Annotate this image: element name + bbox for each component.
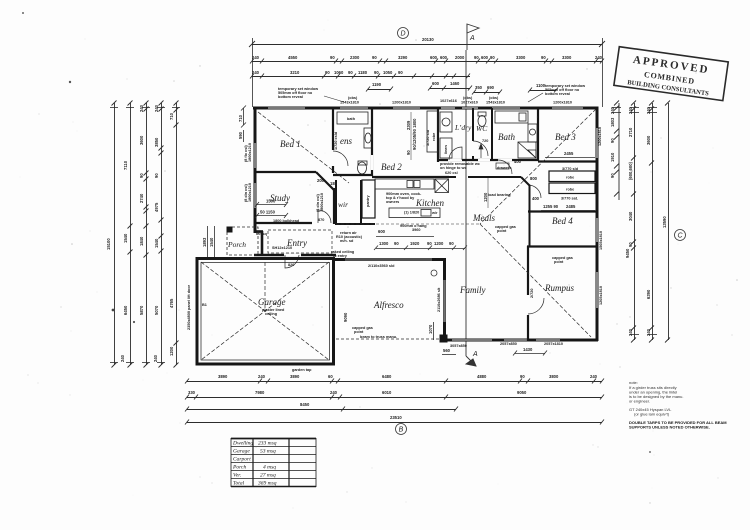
svg-text:A: A <box>472 351 478 358</box>
return air note <box>331 231 363 258</box>
svg-text:3/770 sld: 3/770 sld <box>562 167 579 171</box>
svg-text:1050: 1050 <box>383 70 393 75</box>
front door opening <box>284 254 301 257</box>
provide removable note <box>440 162 480 175</box>
svg-text:90: 90 <box>348 70 353 75</box>
windows in east wall <box>596 128 598 308</box>
svg-text:240: 240 <box>252 55 260 60</box>
svg-text:90: 90 <box>520 374 525 379</box>
wall: family west exterior <box>443 258 446 342</box>
openings in south wall <box>452 339 560 341</box>
svg-text:Porch: Porch <box>227 240 246 249</box>
right dim tier3 <box>649 101 654 343</box>
svg-text:590: 590 <box>238 131 243 139</box>
dim 1200 vertical meals <box>487 178 489 208</box>
svg-text:240: 240 <box>646 106 651 114</box>
svg-text:1540: 1540 <box>209 237 214 247</box>
svg-text:710: 710 <box>169 112 174 120</box>
svg-text:Bed 2: Bed 2 <box>381 162 402 172</box>
svg-text:Bath: Bath <box>498 132 515 142</box>
svg-text:820: 820 <box>288 263 294 267</box>
svg-text:3300: 3300 <box>562 55 572 60</box>
right dim tier1 <box>614 101 619 201</box>
svg-text:90: 90 <box>610 173 615 178</box>
svg-text:Porch: Porch <box>232 465 246 471</box>
svg-text:linen: linen <box>444 144 448 154</box>
sub dims 600 1460 <box>428 86 472 91</box>
svg-text:90: 90 <box>449 241 454 246</box>
left dim vertical tier4 <box>159 101 164 368</box>
svg-text:load bearing: load bearing <box>488 193 511 197</box>
svg-text:200: 200 <box>317 178 325 183</box>
svg-text:wir: wir <box>338 200 348 209</box>
bed2 internal dim <box>410 112 412 160</box>
alfresco post corner <box>440 335 447 342</box>
svg-text:2309: 2309 <box>406 120 411 130</box>
svg-text:2057x1810: 2057x1810 <box>544 342 563 346</box>
svg-text:240: 240 <box>153 354 158 362</box>
svg-text:Garage: Garage <box>233 449 250 455</box>
alfresco dim 1070 <box>433 322 435 340</box>
windows in north wall (thin double line) <box>268 107 583 109</box>
svg-text:3960: 3960 <box>412 228 420 232</box>
svg-text:1505x1810: 1505x1810 <box>599 231 603 250</box>
svg-text:1540: 1540 <box>154 238 159 248</box>
dimension line top tier3 <box>250 74 470 79</box>
wall: study east <box>333 188 335 224</box>
bath tub <box>495 111 528 123</box>
svg-text:1200x1810: 1200x1810 <box>598 127 602 146</box>
svg-text:400: 400 <box>514 159 522 164</box>
entry dashed outline <box>268 230 332 253</box>
labels top tier2 <box>252 55 603 60</box>
front door arc <box>285 255 299 268</box>
svg-text:Bed 4: Bed 4 <box>552 216 573 226</box>
porch dashed outline <box>227 227 258 255</box>
robe label bed2 <box>426 129 436 146</box>
svg-text:(obs): (obs) <box>348 96 358 100</box>
svg-text:3890: 3890 <box>218 374 228 379</box>
alfresco beam dashed <box>336 338 444 340</box>
grid bubble D <box>398 28 409 39</box>
wall: ldry/wc divider <box>472 108 474 160</box>
svg-text:bath: bath <box>347 117 356 121</box>
svg-text:point: point <box>354 330 364 334</box>
right dim tier4 13590 <box>665 101 670 343</box>
sub dim 1100 <box>528 88 558 93</box>
svg-text:SUPPORTS UNLESS NOTED OTHERWIS: SUPPORTS UNLESS NOTED OTHERWISE. <box>629 425 710 430</box>
wall: bath east / bed3 west <box>537 108 539 161</box>
svg-text:3/720 sld: 3/720 sld <box>426 129 430 146</box>
svg-text:1255 90: 1255 90 <box>543 204 559 209</box>
svg-text:240: 240 <box>595 55 603 60</box>
svg-text:240: 240 <box>154 104 159 112</box>
svg-text:4765: 4765 <box>169 298 174 308</box>
svg-text:(obs): (obs) <box>463 96 473 100</box>
stamp box <box>614 47 728 101</box>
svg-text:1800x1210: 1800x1210 <box>320 193 324 212</box>
capped gas rumpus <box>552 256 573 264</box>
svg-text:Carport: Carport <box>233 457 251 463</box>
svg-text:3600: 3600 <box>646 135 651 145</box>
capped gas meals <box>495 225 516 233</box>
kitchen stove <box>435 179 449 193</box>
svg-text:Meals: Meals <box>472 213 495 223</box>
svg-text:Dwelling: Dwelling <box>232 441 253 447</box>
svg-text:4975: 4975 <box>154 202 159 212</box>
stub dim 590 left wall <box>243 130 245 142</box>
south wall door labels <box>450 342 563 348</box>
svg-text:Ver.: Ver. <box>233 473 241 479</box>
svg-text:1920: 1920 <box>410 241 420 246</box>
stub dim 710 at top-left corner <box>241 106 246 128</box>
svg-text:drawers: drawers <box>497 166 512 170</box>
svg-text:600: 600 <box>430 55 438 60</box>
bottom dim row1 <box>185 379 604 384</box>
svg-text:4 msq: 4 msq <box>263 464 276 471</box>
svg-text:6450: 6450 <box>123 305 128 315</box>
svg-text:6480: 6480 <box>382 374 392 379</box>
svg-text:560: 560 <box>443 348 451 353</box>
svg-text:WC: WC <box>476 124 488 133</box>
svg-text:720: 720 <box>482 139 488 143</box>
svg-text:1840: 1840 <box>139 236 144 246</box>
opening family west sliding <box>444 280 446 322</box>
robe labels <box>561 167 579 201</box>
svg-text:1205x1810: 1205x1810 <box>599 286 603 305</box>
svg-text:7110: 7110 <box>123 160 128 170</box>
svg-text:ens: ens <box>340 136 352 146</box>
svg-text:Family: Family <box>459 285 486 295</box>
svg-text:3057x850: 3057x850 <box>450 344 467 348</box>
wall: south exterior family/rumpus <box>443 339 598 342</box>
ens wc <box>358 161 368 174</box>
svg-text:90: 90 <box>374 70 379 75</box>
svg-text:1893: 1893 <box>202 237 207 247</box>
svg-text:Kitchen: Kitchen <box>415 198 444 208</box>
rumpus door arc <box>528 298 544 314</box>
svg-text:2740: 2740 <box>139 193 144 203</box>
entry small notes <box>256 232 294 267</box>
wall: alfresco north (sliding doors) <box>334 258 446 261</box>
svg-text:90: 90 <box>490 55 495 60</box>
wall: wir walls <box>336 180 375 225</box>
hall south wall continuation <box>449 177 530 186</box>
svg-text:600sq: 600sq <box>256 232 267 236</box>
svg-text:Garage: Garage <box>258 297 286 307</box>
bed1 dims small <box>317 178 338 186</box>
svg-text:robe: robe <box>432 133 436 141</box>
svg-text:6390: 6390 <box>646 289 651 299</box>
svg-text:robe: robe <box>566 176 574 180</box>
wall: west exterior (bed1/study) <box>254 107 257 234</box>
bed2 robe <box>427 111 438 152</box>
svg-text:D: D <box>400 31 405 38</box>
svg-text:1060: 1060 <box>334 70 344 75</box>
kitchen bench north <box>375 179 434 189</box>
kitchen dim row 1300.. <box>374 246 467 251</box>
svg-text:90: 90 <box>394 241 399 246</box>
svg-text:1300: 1300 <box>379 241 389 246</box>
section marker A top <box>467 24 479 50</box>
svg-text:240: 240 <box>628 106 633 114</box>
svg-text:L’dry: L’dry <box>454 123 472 132</box>
bottom dim row4 23510 <box>185 420 604 425</box>
kitchen island <box>389 208 440 218</box>
svg-text:233 msq: 233 msq <box>258 441 277 447</box>
svg-text:1027x616: 1027x616 <box>440 99 457 103</box>
svg-text:240: 240 <box>120 354 125 362</box>
svg-text:1190: 1190 <box>372 82 382 87</box>
ldry linen <box>440 138 452 158</box>
bath shower <box>518 142 536 158</box>
svg-text:beam to truss manu.: beam to truss manu. <box>360 335 397 339</box>
wall: bed1 south / study north <box>255 172 334 190</box>
labels top tier3 <box>252 70 403 75</box>
svg-text:90/1205/90 1800: 90/1205/90 1800 <box>412 118 417 150</box>
svg-text:Alfresco: Alfresco <box>373 300 404 310</box>
drawers cabinet <box>496 163 509 169</box>
wall: bed3 south <box>538 160 598 162</box>
svg-text:800: 800 <box>530 176 538 181</box>
svg-text:Rumpus: Rumpus <box>544 283 574 293</box>
dimension line top tier2 <box>250 59 604 64</box>
svg-text:point: point <box>554 260 564 264</box>
svg-text:pantry: pantry <box>366 195 370 207</box>
bath vanity <box>528 124 537 142</box>
svg-text:2350x4800 panel lift door: 2350x4800 panel lift door <box>187 284 191 330</box>
svg-text:1543x1810: 1543x1810 <box>486 101 505 105</box>
svg-text:600: 600 <box>481 55 489 60</box>
left dim vertical tier2 <box>128 101 133 368</box>
svg-text:90: 90 <box>474 55 479 60</box>
svg-text:90: 90 <box>628 242 633 247</box>
svg-text:4550: 4550 <box>288 55 298 60</box>
svg-text:1910: 1910 <box>610 152 615 162</box>
svg-text:point: point <box>497 229 507 233</box>
grid bubble B <box>396 424 407 435</box>
door openings hall <box>448 159 512 161</box>
svg-text:9050: 9050 <box>517 390 527 395</box>
svg-text:240: 240 <box>252 70 260 75</box>
svg-text:90: 90 <box>330 55 335 60</box>
svg-text:or engineer.: or engineer. <box>629 399 650 404</box>
svg-text:on hinge to wc: on hinge to wc <box>440 166 467 170</box>
circle marker in alfresco <box>431 270 437 276</box>
wc door arc + arrow <box>473 141 488 158</box>
svg-text:240: 240 <box>610 106 615 114</box>
svg-text:(or glue lam equiv’t): (or glue lam equiv’t) <box>634 412 670 417</box>
svg-text:1540: 1540 <box>123 233 128 243</box>
svg-text:5070: 5070 <box>154 305 159 315</box>
bed1 diagonal <box>258 112 349 183</box>
svg-text:Bed 1: Bed 1 <box>280 139 301 149</box>
svg-text:bottom reveal: bottom reveal <box>278 95 303 99</box>
wall: east exterior <box>596 107 599 342</box>
dimension extension lines top <box>253 38 603 107</box>
dim 1430 bottom <box>513 351 547 356</box>
kitchen ohang dashed <box>336 223 480 225</box>
capped gas point alfresco <box>352 326 373 334</box>
svg-text:600: 600 <box>440 55 448 60</box>
grid bubble C <box>675 230 686 241</box>
svg-text:ceiling: ceiling <box>265 312 278 316</box>
svg-text:1200x1810: 1200x1810 <box>553 101 572 105</box>
svg-text:4880: 4880 <box>477 374 487 379</box>
ens door opening <box>371 155 373 170</box>
svg-text:1027x610: 1027x610 <box>461 101 478 105</box>
svg-text:1800 bulkhead: 1800 bulkhead <box>273 219 300 223</box>
door study 870 <box>318 210 331 223</box>
svg-text:2000: 2000 <box>455 55 465 60</box>
garage inner wall line <box>201 263 330 361</box>
svg-text:2485: 2485 <box>566 204 576 209</box>
svg-text:7980: 7980 <box>255 390 265 395</box>
ldry trough <box>440 112 452 132</box>
svg-text:2710: 2710 <box>628 127 633 137</box>
svg-text:(1) 1/820: (1) 1/820 <box>404 211 419 215</box>
sub dim 350 690 <box>472 90 502 95</box>
svg-text:2110x2686 slt: 2110x2686 slt <box>437 287 441 312</box>
wall: north exterior <box>253 107 598 110</box>
svg-text:B: B <box>399 427 404 434</box>
pantry walls <box>362 180 375 218</box>
svg-text:robe: robe <box>566 188 574 192</box>
svg-text:240: 240 <box>330 390 338 395</box>
svg-text:B1: B1 <box>202 303 207 307</box>
svg-text:2/720: 2/720 <box>530 288 534 298</box>
ens door arc <box>333 151 348 166</box>
svg-text:1800x1210: 1800x1210 <box>248 143 252 162</box>
svg-text:3040: 3040 <box>628 211 633 221</box>
bed4 dim 1255 90 2485 <box>541 210 595 212</box>
svg-text:3600: 3600 <box>139 135 144 145</box>
svg-text:Total: Total <box>233 481 245 487</box>
dims 400 <box>514 159 540 201</box>
kitchen dim 600 <box>376 236 434 238</box>
svg-text:m/h. sd: m/h. sd <box>340 239 354 243</box>
svg-text:3850: 3850 <box>154 137 159 147</box>
svg-text:23510: 23510 <box>390 415 402 420</box>
bottom dim row2 <box>185 395 604 400</box>
svg-text:600: 600 <box>432 81 440 86</box>
svg-text:50 1150: 50 1150 <box>260 210 276 215</box>
garage roof diagonals <box>201 262 329 360</box>
svg-text:2300: 2300 <box>350 55 360 60</box>
study window label <box>316 193 324 212</box>
wall: ens east <box>371 108 373 176</box>
svg-text:1200: 1200 <box>169 346 174 356</box>
wall: hall south y160 <box>438 159 538 161</box>
wall: bed4 south / rumpus north <box>527 245 598 247</box>
svg-text:90: 90 <box>427 241 432 246</box>
section marker A bottom <box>465 50 467 356</box>
svg-text:Bed 3: Bed 3 <box>555 132 576 142</box>
svg-text:870: 870 <box>318 218 324 222</box>
svg-text:(600,600): (600,600) <box>628 161 633 180</box>
door arcs hall <box>449 147 512 174</box>
svg-text:185: 185 <box>330 181 338 186</box>
robe walls between bed3/bed4 <box>549 171 595 194</box>
svg-text:1500: 1500 <box>266 199 276 204</box>
svg-text:600: 600 <box>378 229 386 234</box>
svg-text:3890: 3890 <box>290 374 300 379</box>
svg-text:1543x1810: 1543x1810 <box>340 101 359 105</box>
svg-text:w/r: w/r <box>431 211 438 215</box>
svg-text:60: 60 <box>328 374 333 379</box>
svg-text:6010: 6010 <box>382 390 392 395</box>
svg-text:90: 90 <box>610 138 615 143</box>
svg-text:90: 90 <box>398 70 403 75</box>
wall: hallway vertical x528 <box>529 185 531 247</box>
wall: west short below study <box>255 231 263 256</box>
note temporary set window left <box>278 87 318 99</box>
svg-text:3300: 3300 <box>516 55 526 60</box>
svg-text:240: 240 <box>628 328 633 336</box>
svg-text:2/110x3560 sld: 2/110x3560 sld <box>368 264 395 268</box>
svg-text:1200x1810: 1200x1810 <box>392 101 411 105</box>
right dim tier2 <box>631 101 636 343</box>
svg-text:1/720 csld: 1/720 csld <box>334 131 338 150</box>
left dim vertical tier1 15100 <box>112 101 117 368</box>
bed3 dim 2455 <box>545 157 595 159</box>
svg-text:9090: 9090 <box>343 312 348 322</box>
svg-text:1200: 1200 <box>483 192 488 202</box>
svg-text:90: 90 <box>541 55 546 60</box>
wall: rumpus west <box>527 246 529 341</box>
svg-text:330: 330 <box>188 390 196 395</box>
wall: kitchen north bench wall <box>372 176 449 178</box>
svg-text:1200: 1200 <box>434 241 444 246</box>
svg-text:90: 90 <box>372 55 377 60</box>
svg-text:240: 240 <box>258 374 266 379</box>
wall: study south <box>255 222 312 224</box>
wall: bed4 north <box>528 210 598 212</box>
dimension line top tier1 20130 <box>249 41 605 47</box>
svg-text:53 msq: 53 msq <box>260 449 276 455</box>
window labels west wall <box>244 143 252 202</box>
garage ceiling note <box>262 308 285 316</box>
svg-text:3210: 3210 <box>290 70 300 75</box>
svg-text:15100: 15100 <box>106 238 111 250</box>
svg-text:240: 240 <box>590 374 598 379</box>
svg-text:369 msq: 369 msq <box>257 481 277 487</box>
left dim vertical tier5 <box>174 101 179 368</box>
svg-text:90: 90 <box>154 173 159 178</box>
svg-text:1430: 1430 <box>523 347 533 352</box>
door arc bed4 <box>528 185 541 198</box>
wall: ens south <box>333 174 372 176</box>
svg-text:garden tap: garden tap <box>292 368 312 372</box>
tier top/bottom crossbars <box>110 108 657 363</box>
svg-text:2455: 2455 <box>564 151 574 156</box>
svg-text:9450: 9450 <box>625 248 630 258</box>
svg-text:90: 90 <box>406 150 411 155</box>
sub dim 1190 <box>366 87 393 92</box>
svg-text:350: 350 <box>475 85 483 90</box>
study dims <box>255 202 288 218</box>
svg-text:(obs): (obs) <box>489 96 499 100</box>
svg-text:710: 710 <box>238 114 243 122</box>
dim 560 bottom left <box>442 354 456 356</box>
svg-text:8450: 8450 <box>300 402 310 407</box>
svg-text:1803: 1803 <box>610 117 615 127</box>
svg-text:bottom reveal: bottom reveal <box>545 92 570 96</box>
ens bath <box>337 112 368 124</box>
svg-text:27 msq: 27 msq <box>260 473 276 479</box>
east wall window labels <box>598 127 603 305</box>
svg-text:to entry: to entry <box>333 254 348 258</box>
